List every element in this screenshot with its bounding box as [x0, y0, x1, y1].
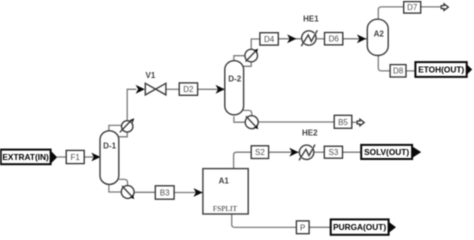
distillate wire D-2 to D4	[251, 39, 260, 49]
svg-text:V1: V1	[146, 71, 156, 80]
valve V1	[145, 83, 166, 95]
wire A1 bottom to P	[232, 214, 297, 228]
stream label D7	[404, 2, 421, 14]
stream output SOLV(OUT)	[361, 145, 421, 159]
svg-text:A1: A1	[219, 177, 230, 186]
wire A2 top to D7	[378, 7, 404, 20]
wire reboiler D-2 to B5	[258, 121, 334, 123]
distillate wire D-1 to V1	[127, 89, 136, 121]
wire S3 to SOLV	[343, 151, 362, 153]
reboiler of D-2	[245, 116, 260, 131]
condenser of D-1	[120, 117, 136, 133]
svg-text:P: P	[300, 223, 305, 232]
heater HE1	[301, 30, 317, 46]
svg-text:SOLV(OUT): SOLV(OUT)	[364, 147, 409, 157]
svg-text:D2: D2	[183, 85, 194, 94]
stream label S3	[324, 146, 342, 158]
svg-text:D6: D6	[329, 35, 340, 44]
wire P to PURGA	[309, 226, 331, 228]
wire F1 to D-1	[84, 156, 100, 158]
reboiler of D-1	[121, 186, 136, 201]
svg-text:PURGA(OUT): PURGA(OUT)	[333, 222, 386, 232]
wire D2 to D-2	[198, 88, 225, 90]
wire A2 bottom to D8	[378, 55, 390, 71]
svg-text:B5: B5	[338, 118, 348, 127]
boilup return wire D-1	[109, 185, 122, 192]
flash drum A2	[367, 19, 388, 55]
svg-text:B3: B3	[160, 189, 170, 198]
svg-text:FSPLIT: FSPLIT	[213, 204, 238, 213]
condenser of D-2	[245, 47, 260, 62]
wire D6 to A2	[343, 38, 367, 40]
boilup return wire D-2	[234, 116, 245, 122]
stream label D4	[260, 33, 278, 45]
svg-text:HE2: HE2	[302, 129, 318, 138]
wire reboiler D-1 to B3	[134, 191, 155, 193]
svg-text:S3: S3	[329, 148, 339, 157]
heater HE2	[299, 145, 315, 161]
wire D4 to HE1	[278, 38, 302, 40]
wire V1 to D2	[166, 88, 179, 90]
svg-text:EXTRAT(IN): EXTRAT(IN)	[2, 152, 49, 162]
stream output ETOH(OUT)	[415, 62, 472, 77]
stream output PURGA(OUT)	[331, 219, 396, 234]
wire B3 to A1	[174, 192, 203, 194]
wire HE1 to D6	[316, 38, 324, 40]
svg-text:A2: A2	[374, 30, 385, 39]
svg-text:D4: D4	[264, 35, 275, 44]
reflux wire D-1	[119, 132, 127, 137]
stream label D2	[179, 83, 197, 95]
stream label F1	[66, 150, 84, 163]
reflux wire D-2	[243, 62, 252, 66]
wire A1 top to S2	[234, 152, 252, 169]
outlet port arrow after D7	[441, 4, 448, 11]
splitter A1	[203, 169, 248, 214]
svg-text:D8: D8	[393, 67, 404, 76]
wire D-1 bottom to reboiler	[119, 179, 128, 185]
outlet port arrow after B5	[357, 119, 364, 126]
wire HE2 to S3	[314, 151, 325, 153]
column D-2	[225, 61, 244, 115]
stream label D6	[325, 33, 343, 45]
wire D7 to outlet	[421, 6, 442, 8]
svg-text:F1: F1	[71, 153, 81, 162]
svg-text:D7: D7	[407, 3, 418, 12]
stream label P	[296, 221, 309, 234]
stream label B3	[155, 186, 174, 199]
stream label S2	[251, 146, 268, 159]
wire D-1 top to condenser	[109, 125, 122, 130]
wire B5 to outlet	[352, 121, 357, 123]
svg-text:S2: S2	[255, 148, 265, 157]
wire EXTRAT to F1	[57, 156, 66, 158]
wire D8 to ETOH	[406, 70, 416, 72]
svg-text:D-2: D-2	[228, 75, 241, 84]
stream input EXTRAT(IN)	[1, 150, 58, 165]
column D-1	[100, 131, 119, 185]
svg-text:D-1: D-1	[103, 141, 116, 150]
svg-text:ETOH(OUT): ETOH(OUT)	[418, 65, 464, 75]
wire D-2 top to condenser	[234, 56, 245, 62]
wire S2 to HE2	[269, 151, 300, 153]
stream label D8	[390, 65, 406, 77]
stream label B5	[334, 115, 352, 128]
svg-text:HE1: HE1	[303, 15, 319, 24]
wire D-2 bottom to reboiler	[243, 110, 252, 115]
